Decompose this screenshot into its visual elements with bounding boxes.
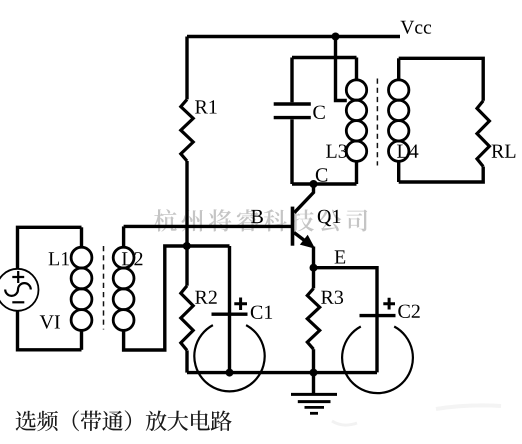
source plus	[12, 271, 24, 283]
junction dot R3 ground	[310, 369, 318, 377]
wire top Vcc rail	[187, 35, 400, 38]
junction dot collector	[310, 180, 318, 188]
wire capacitor C lower lead	[290, 119, 293, 184]
wire collector lead	[294, 184, 313, 213]
wire L4 lower lead	[397, 161, 400, 182]
capacitor C2 plus sign	[383, 298, 395, 310]
label VI	[40, 315, 60, 328]
label R3	[321, 291, 343, 304]
label E	[335, 250, 346, 263]
label C	[316, 168, 327, 181]
wire input loop left top	[18, 227, 82, 268]
wire R3 upper lead	[312, 268, 315, 289]
capacitor C plates	[274, 104, 311, 118]
wire R2 lower lead	[185, 350, 188, 372]
label R2	[195, 291, 217, 304]
wire C1 lead	[228, 246, 231, 373]
source sine	[5, 283, 31, 296]
ground bar 4	[310, 412, 318, 415]
wire L3 upper lead	[355, 58, 358, 80]
capacitor C2 curved plate	[342, 327, 413, 394]
wire L2 upper lead	[122, 226, 125, 247]
inductor L3	[346, 80, 366, 100]
wire R3 lower lead	[312, 349, 315, 372]
wire emitter rail to C2	[314, 268, 378, 373]
wire output loop top	[399, 58, 484, 100]
capacitor C1 curved plate	[194, 325, 264, 391]
watermark smudge arc	[332, 421, 357, 425]
wire tank bottom	[292, 182, 357, 185]
wire L4 upper lead	[397, 58, 400, 80]
label L2	[122, 252, 142, 265]
label R1	[195, 100, 217, 113]
ground bar 3	[305, 406, 325, 409]
wire R1 column lower	[185, 161, 188, 246]
wire tank top	[292, 56, 357, 59]
wire emitter vertical	[312, 247, 315, 268]
ground bar 1	[291, 393, 337, 396]
source minus	[12, 301, 24, 303]
junction dot Vcc	[332, 33, 340, 41]
label L3	[326, 145, 347, 158]
junction dot emitter	[310, 264, 318, 272]
junction dot C1 ground	[226, 369, 234, 377]
wire bottom rail	[187, 371, 377, 374]
watermark smudge line	[436, 405, 501, 409]
label B	[251, 210, 263, 223]
transistor Q1 base bar	[291, 207, 295, 246]
resistor R3	[307, 288, 319, 349]
wire base	[124, 225, 292, 228]
wire capacitor C upper lead	[290, 58, 293, 103]
inductor L4	[389, 80, 409, 100]
transformer core dashes L1-L2	[103, 246, 105, 330]
label C1	[251, 306, 272, 319]
label RL	[492, 145, 516, 158]
watermark company name	[154, 209, 367, 232]
label C	[313, 106, 324, 119]
label Vcc	[401, 21, 432, 34]
resistor RL	[477, 101, 489, 167]
inductor L1	[71, 247, 92, 268]
label Q1	[318, 210, 340, 226]
wire ground stem	[312, 373, 315, 395]
wire Vcc tap to L3	[336, 37, 347, 101]
transformer core dashes L3-L4	[376, 79, 378, 166]
caption band-pass amplifier title	[16, 410, 232, 431]
wire R2 upper lead	[185, 246, 188, 286]
transistor Q1 emitter arrow	[301, 236, 314, 248]
inductor L2	[113, 247, 134, 268]
capacitor C1 plus sign	[234, 298, 247, 311]
resistor R1	[181, 99, 193, 161]
wire input loop left bottom	[18, 311, 82, 350]
wire L1 lower lead	[80, 330, 83, 349]
capacitor C1 plate	[212, 313, 248, 316]
wire emitter diagonal	[294, 233, 307, 243]
wire L2 lower loop	[124, 246, 230, 350]
junction dot base divider	[183, 242, 191, 250]
wire L3 lower lead	[355, 161, 358, 184]
label L4	[397, 145, 418, 158]
wire R1 column upper	[185, 37, 188, 100]
label C2	[398, 305, 419, 318]
resistor R2	[181, 286, 193, 351]
wire L1 upper lead	[80, 227, 83, 247]
source VI circle	[0, 269, 39, 311]
wire output loop bottom	[399, 167, 484, 183]
capacitor C2 plate	[360, 314, 396, 317]
ground bar 2	[298, 400, 331, 403]
label L1	[49, 252, 69, 265]
